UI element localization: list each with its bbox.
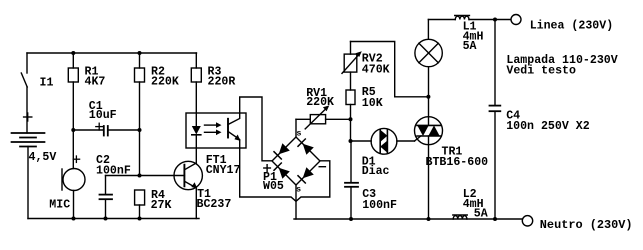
wire base line [106,175,185,177]
diac D1 [351,128,415,178]
svg-text:Diac: Diac [362,165,390,178]
node C4 ground junction [493,217,497,221]
note Lampada [506,54,617,78]
potentiometer RV2 470K [342,42,390,91]
svg-text:Vedi testo: Vedi testo [506,65,576,78]
node RV1 R5 junction [349,117,353,121]
capacitor C1 10uF [73,100,139,136]
svg-text:BC237: BC237 [197,198,232,211]
battery B1 4,5V [12,113,57,219]
terminal Linea [511,15,613,33]
svg-text:W05: W05 [263,180,284,193]
svg-text:220K: 220K [306,96,334,109]
node TR1 ground junction [427,217,431,221]
lamp LP1 [415,20,442,67]
triac TR1 BTB16-600 [415,67,489,219]
diode bottom-left edge [279,168,290,179]
svg-text:Neutro (230V): Neutro (230V) [540,218,633,232]
svg-text:MIC: MIC [49,199,70,212]
light arrows inside FT1 [205,122,222,135]
inductor L1 4mH 5A [455,16,511,54]
node MIC ground junction [72,217,76,221]
diode bottom-right edge [303,167,314,178]
node C2 ground junction [104,217,108,221]
svg-text:4,5V: 4,5V [29,151,57,164]
wire bottom right rail [294,218,522,220]
capacitor C2 100nF [96,154,131,218]
plus label [264,167,271,169]
terminal Neutro [522,216,632,233]
transistor T1 BC237 [174,161,231,218]
node lamp triac wire junction [426,95,430,99]
svg-text:100nF: 100nF [96,164,131,177]
resistor R5 10K [346,86,383,141]
node base junction [138,174,142,178]
wire top right rail [428,19,455,21]
optocoupler FT1 CNY17 box [186,113,246,148]
node MIC / C1 junction [71,128,75,132]
wire bridge bottom AC with tilde crossover [296,184,301,219]
svg-text:27K: 27K [151,199,172,212]
svg-text:100n 250V X2: 100n 250V X2 [506,120,590,133]
resistor R4 27K [135,189,172,218]
svg-text:10K: 10K [362,97,383,110]
wire left ground rail [28,218,199,220]
svg-text:CNY17: CNY17 [206,164,241,177]
inductor L2 4mH 5A [453,188,488,221]
svg-text:4K7: 4K7 [85,76,106,89]
switch I1 [21,53,53,133]
bridge rectifier P1 W05 diamond [263,137,325,193]
wire bridge top AC with tilde [296,119,302,138]
resistor R3 220R [191,53,235,126]
svg-text:Linea (230V): Linea (230V) [530,20,614,33]
LED inside FT1 [192,126,201,163]
node R1 top junction [71,51,75,55]
capacitor C3 100nF [345,141,397,219]
svg-text:470K: 470K [362,64,390,77]
svg-text:I1: I1 [40,76,54,89]
potentiometer RV1 220K [296,87,351,129]
wire top supply rail [27,52,197,54]
phototransistor inside FT1 [206,97,330,201]
svg-text:100nF: 100nF [362,199,397,212]
node C1 / R2 junction [138,128,142,132]
diode top-left edge [279,143,290,154]
node C3 ground junction [349,217,353,221]
node diac junction [349,139,353,143]
svg-text:s: s [296,129,301,139]
diode top-right edge [303,144,314,155]
svg-text:220K: 220K [151,76,179,89]
resistor R1 4K7 [68,53,105,130]
node R4 ground junction [138,217,142,221]
resistor R2 220K [135,53,179,176]
svg-text:220R: 220R [208,76,236,89]
node C4 top junction [493,18,497,22]
minus label [319,166,325,168]
microphone MIC [49,130,85,219]
svg-text:10uF: 10uF [89,109,117,122]
svg-text:BTB16-600: BTB16-600 [426,156,489,169]
svg-text:s: s [296,184,301,194]
capacitor C4 100n 250V X2 [490,20,590,220]
svg-text:5A: 5A [463,40,477,53]
wire RV2 top to lamp node [351,42,429,97]
svg-text:5A: 5A [474,208,488,221]
node R2 top junction [138,51,142,55]
